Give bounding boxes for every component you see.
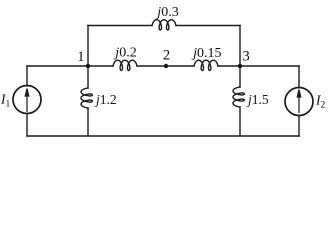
svg-text:j0.2: j0.2 [113,46,136,61]
svg-text:j0.15: j0.15 [191,46,221,61]
svg-text:1: 1 [77,49,84,65]
svg-text:2: 2 [163,48,170,64]
svg-text:j1.2: j1.2 [94,92,117,107]
svg-text:I2: I2 [315,93,326,111]
svg-text:3: 3 [243,48,250,64]
svg-text:j0.3: j0.3 [155,5,178,20]
svg-text:I1: I1 [0,92,11,110]
svg-text:j1.5: j1.5 [246,92,269,107]
